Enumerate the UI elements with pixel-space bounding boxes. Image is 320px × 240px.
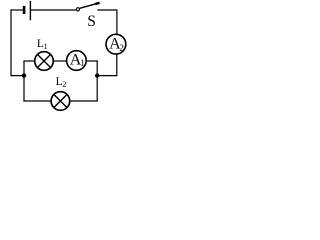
lamp L1 [35, 52, 54, 71]
battery cell short plate (negative) [23, 6, 26, 14]
wire left branch vertical [23, 61, 25, 101]
svg-text:2: 2 [62, 80, 66, 89]
wire left branch to lamp L1 [23, 60, 35, 62]
wire right branch vertical [96, 61, 98, 102]
svg-text:2: 2 [119, 44, 124, 54]
lamp L2 [51, 92, 70, 111]
wire bottom branch left to lamp L2 [23, 100, 51, 102]
wire lamp L2 to right branch [70, 100, 98, 102]
wire top-left horizontal [11, 9, 24, 11]
node left junction [22, 73, 26, 77]
svg-text:S: S [87, 13, 96, 30]
wire L1 to A1 [53, 60, 66, 62]
switch S pivot contact [76, 8, 79, 11]
svg-text:1: 1 [80, 59, 85, 69]
node right junction [95, 73, 99, 77]
svg-text:1: 1 [44, 42, 48, 51]
ammeter A1 [67, 51, 87, 71]
wire switch to top-right corner, down to A2 [97, 10, 117, 35]
wire A2 down to right junction [99, 54, 117, 76]
wire left side vertical and stub [11, 9, 23, 75]
wire A1 to right branch [86, 60, 98, 62]
battery cell long plate (positive) [29, 1, 31, 21]
ammeter A2 [106, 34, 126, 54]
switch S blade [80, 3, 100, 9]
wire battery to switch [31, 9, 76, 11]
